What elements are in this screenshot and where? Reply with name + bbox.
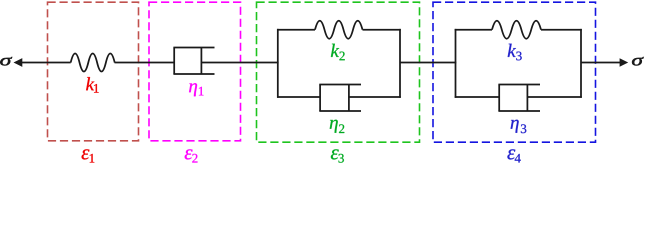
wire: Kelvin 1 top branch left (277, 29, 315, 31)
wire: Kelvin 1 top branch right (363, 29, 401, 31)
Kelvin unit 1 right vertical (399, 29, 401, 98)
Kelvin unit 2 left vertical (455, 29, 457, 98)
spring k1 (71, 54, 115, 72)
dashpot eta3 piston (526, 85, 528, 112)
wire: dashpot eta1 rod to Kelvin unit 1 (201, 62, 278, 64)
label sigma left (0, 57, 12, 65)
label epsilon3 (331, 149, 344, 162)
label eta2 (330, 120, 345, 133)
label epsilon1 (82, 149, 95, 162)
label epsilon4 (507, 149, 520, 162)
wire: Kelvin 1 bottom branch left (277, 96, 320, 98)
strain box epsilon2 (magenta dashed) (149, 2, 241, 141)
strain box epsilon1 (red dashed) (48, 2, 139, 141)
spring k3 (492, 21, 541, 39)
label k3 (508, 44, 522, 61)
Kelvin unit 1 left vertical (277, 29, 279, 98)
dashpot eta2 piston (348, 85, 350, 112)
dashpot eta1 cylinder (173, 48, 214, 75)
spring k2 (315, 21, 363, 39)
wire: left arrow shaft (22, 62, 71, 64)
dashpot eta3 cylinder (498, 85, 540, 112)
strain box epsilon4 (blue dashed) (433, 2, 596, 142)
label sigma right (632, 57, 644, 65)
dashpot eta1 piston (200, 48, 202, 75)
wire: dashpot eta3 rod (527, 96, 581, 98)
label eta1 (189, 83, 203, 96)
wire: Kelvin 1 to Kelvin 2 (400, 62, 456, 64)
right stress arrowhead (620, 58, 629, 67)
wire: Kelvin 2 top branch right (541, 29, 582, 31)
wire: right arrow shaft (581, 62, 621, 64)
strain box epsilon3 (green dashed) (257, 2, 420, 142)
dashpot eta2 cylinder (319, 85, 361, 112)
wire: spring k1 to dashpot eta1 (115, 62, 175, 64)
label epsilon2 (185, 149, 198, 162)
Kelvin unit 2 right vertical (580, 29, 582, 98)
wire: Kelvin 2 top branch left (455, 29, 492, 31)
left stress arrowhead (14, 58, 23, 67)
label eta3 (511, 120, 527, 133)
wire: dashpot eta2 rod (349, 96, 401, 98)
label k1 (86, 77, 98, 92)
label k2 (331, 44, 345, 60)
wire: Kelvin 2 bottom branch left (455, 96, 500, 98)
